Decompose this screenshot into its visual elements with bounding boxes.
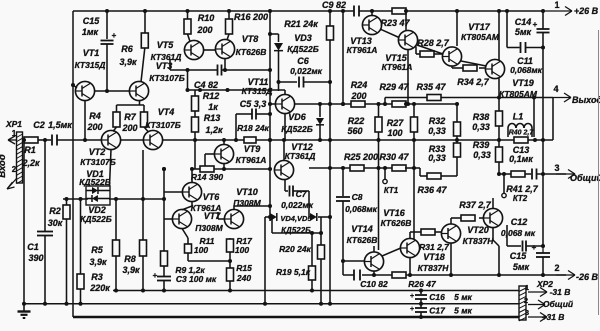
svg-text:220к: 220к bbox=[89, 283, 110, 293]
svg-text:+: + bbox=[410, 293, 414, 300]
svg-text:R24: R24 bbox=[351, 80, 368, 90]
svg-text:3,9к: 3,9к bbox=[89, 257, 107, 267]
svg-text:R41 2,7: R41 2,7 bbox=[506, 184, 539, 194]
svg-text:КТ837Н: КТ837Н bbox=[418, 263, 450, 273]
svg-text:КД522Б: КД522Б bbox=[287, 44, 319, 54]
svg-text:R25 200: R25 200 bbox=[344, 152, 378, 162]
svg-text:R37 2,7: R37 2,7 bbox=[459, 200, 492, 210]
svg-text:-26 В: -26 В bbox=[576, 272, 599, 282]
svg-text:С12: С12 bbox=[511, 217, 528, 227]
svg-text:VD3: VD3 bbox=[294, 33, 312, 43]
svg-text:+: + bbox=[410, 306, 414, 313]
svg-text:VT10: VT10 bbox=[236, 187, 258, 197]
svg-text:390: 390 bbox=[28, 253, 43, 263]
svg-text:R14 390: R14 390 bbox=[191, 172, 223, 182]
svg-text:L1: L1 bbox=[513, 112, 524, 122]
svg-text:0,1мк: 0,1мк bbox=[509, 154, 533, 164]
svg-text:2: 2 bbox=[524, 296, 528, 305]
svg-text:КТ3107Б: КТ3107Б bbox=[80, 157, 115, 167]
svg-text:ХР1: ХР1 bbox=[5, 119, 22, 129]
svg-text:VT16: VT16 bbox=[383, 208, 406, 218]
svg-text:0,33: 0,33 bbox=[473, 150, 491, 160]
svg-text:3,9к: 3,9к bbox=[122, 265, 140, 275]
svg-text:R32: R32 bbox=[429, 116, 446, 126]
svg-text:2: 2 bbox=[554, 263, 559, 273]
svg-text:R29 47: R29 47 bbox=[379, 82, 409, 92]
svg-text:КТ315Д: КТ315Д bbox=[242, 86, 273, 96]
svg-text:КТ626В: КТ626В bbox=[347, 235, 378, 245]
svg-text:R21 24к: R21 24к bbox=[284, 19, 318, 29]
svg-text:R8: R8 bbox=[124, 254, 136, 264]
svg-text:VD6: VD6 bbox=[288, 112, 307, 122]
svg-text:R10: R10 bbox=[198, 13, 215, 23]
svg-text:С6: С6 bbox=[297, 56, 309, 66]
svg-text:С5 3,3: С5 3,3 bbox=[240, 99, 267, 109]
svg-text:С1: С1 bbox=[27, 242, 39, 252]
svg-text:R2: R2 bbox=[49, 206, 61, 216]
svg-text:0,068мк: 0,068мк bbox=[510, 65, 543, 75]
svg-text:0,33: 0,33 bbox=[428, 153, 446, 163]
svg-text:R36 47: R36 47 bbox=[417, 185, 447, 195]
svg-text:КТ961А: КТ961А bbox=[236, 155, 267, 165]
svg-text:КТ805АМ: КТ805АМ bbox=[499, 89, 538, 99]
svg-text:VT20: VT20 bbox=[467, 225, 489, 235]
svg-text:0,068мк: 0,068мк bbox=[345, 204, 378, 214]
svg-text:КТ2: КТ2 bbox=[513, 194, 528, 203]
svg-text:R31 2,7: R31 2,7 bbox=[419, 242, 450, 252]
svg-text:3: 3 bbox=[554, 163, 559, 173]
svg-text:30к: 30к bbox=[48, 218, 63, 228]
svg-text:VT2: VT2 bbox=[89, 147, 106, 157]
svg-text:R40 2,7: R40 2,7 bbox=[509, 130, 535, 137]
svg-text:VD4,VD5: VD4,VD5 bbox=[280, 214, 312, 223]
svg-text:5 мк: 5 мк bbox=[454, 292, 472, 302]
svg-text:КТ626В: КТ626В bbox=[236, 47, 267, 57]
svg-text:П308М: П308М bbox=[195, 223, 223, 233]
svg-text:VT6: VT6 bbox=[203, 192, 221, 202]
svg-text:1: 1 bbox=[525, 283, 529, 292]
svg-text:200: 200 bbox=[86, 122, 102, 132]
svg-text:КТ961А: КТ961А bbox=[382, 62, 413, 72]
svg-text:2,2к: 2,2к bbox=[21, 158, 40, 168]
svg-text:R28 2,7: R28 2,7 bbox=[417, 38, 450, 48]
svg-text:R3: R3 bbox=[91, 272, 103, 282]
svg-text:R5: R5 bbox=[91, 245, 103, 255]
svg-text:КТ3107Б: КТ3107Б bbox=[149, 73, 184, 83]
svg-text:2: 2 bbox=[12, 165, 17, 174]
svg-text:R35 47: R35 47 bbox=[416, 82, 446, 92]
svg-text:С14: С14 bbox=[515, 17, 532, 27]
svg-text:VT19: VT19 bbox=[512, 78, 534, 88]
svg-text:VT7: VT7 bbox=[204, 211, 222, 221]
svg-text:-31 В: -31 В bbox=[550, 287, 571, 297]
svg-text:240: 240 bbox=[236, 273, 251, 283]
svg-text:КД522Б: КД522Б bbox=[80, 214, 112, 224]
svg-text:R7: R7 bbox=[124, 112, 136, 122]
svg-text:0,068 мк: 0,068 мк bbox=[501, 228, 536, 238]
svg-text:R19 5,1к: R19 5,1к bbox=[276, 267, 311, 277]
svg-text:200: 200 bbox=[196, 25, 212, 35]
svg-text:Общий: Общий bbox=[570, 173, 600, 183]
svg-text:КД522Б: КД522Б bbox=[281, 226, 311, 235]
svg-text:0,022мк: 0,022мк bbox=[290, 66, 323, 76]
svg-text:R22: R22 bbox=[348, 116, 365, 126]
svg-text:100: 100 bbox=[194, 245, 208, 255]
svg-text:+: + bbox=[112, 31, 117, 40]
svg-text:С4 82: С4 82 bbox=[194, 80, 218, 90]
svg-text:0,022мк: 0,022мк bbox=[281, 200, 314, 210]
svg-text:VT17: VT17 bbox=[468, 22, 491, 32]
svg-text:R20 24к: R20 24к bbox=[279, 244, 311, 254]
svg-text:1: 1 bbox=[12, 129, 17, 138]
svg-text:С15: С15 bbox=[510, 251, 528, 261]
svg-text:R13: R13 bbox=[204, 113, 221, 123]
svg-text:100: 100 bbox=[235, 245, 249, 255]
svg-text:+: + bbox=[532, 243, 537, 252]
svg-text:С17: С17 bbox=[429, 306, 446, 316]
svg-text:4: 4 bbox=[553, 84, 558, 94]
svg-text:3: 3 bbox=[525, 308, 529, 317]
svg-text:R1: R1 bbox=[24, 145, 36, 155]
svg-text:R27: R27 bbox=[387, 118, 405, 128]
svg-text:1,5мк: 1,5мк bbox=[48, 120, 72, 130]
svg-text:VT18: VT18 bbox=[423, 252, 445, 262]
svg-text:560: 560 bbox=[347, 126, 362, 136]
svg-text:100: 100 bbox=[387, 128, 402, 138]
svg-text:С2: С2 bbox=[33, 120, 45, 130]
svg-text:R15: R15 bbox=[236, 263, 252, 273]
svg-text:R12: R12 bbox=[203, 91, 220, 101]
svg-text:Вход: Вход bbox=[0, 154, 8, 178]
svg-text:С3 100 мк: С3 100 мк bbox=[176, 274, 217, 284]
svg-text:С10 82: С10 82 bbox=[360, 279, 388, 289]
svg-text:Общий: Общий bbox=[543, 299, 574, 309]
svg-text:1мк: 1мк bbox=[82, 27, 99, 37]
svg-text:R16 200: R16 200 bbox=[234, 12, 268, 22]
svg-text:VT8: VT8 bbox=[242, 34, 259, 44]
svg-text:+26 В: +26 В bbox=[574, 6, 599, 16]
svg-text:R23 47: R23 47 bbox=[380, 18, 410, 28]
svg-text:R34 2,7: R34 2,7 bbox=[457, 77, 490, 87]
svg-text:200: 200 bbox=[350, 91, 366, 101]
svg-text:КД522Б: КД522Б bbox=[79, 177, 111, 187]
svg-text:5мк: 5мк bbox=[513, 262, 530, 272]
svg-text:1к: 1к bbox=[208, 102, 218, 112]
svg-text:КТ1: КТ1 bbox=[384, 186, 399, 195]
svg-text:R6: R6 bbox=[121, 44, 133, 54]
svg-text:5мк: 5мк bbox=[515, 27, 532, 37]
svg-text:VT4: VT4 bbox=[158, 107, 175, 117]
svg-text:КТ3107Б: КТ3107Б bbox=[145, 120, 180, 130]
svg-text:+: + bbox=[533, 20, 538, 29]
svg-text:С8: С8 bbox=[352, 192, 363, 202]
svg-text:Выход: Выход bbox=[572, 95, 600, 105]
svg-text:R30 47: R30 47 bbox=[379, 152, 409, 162]
svg-text:С9 82: С9 82 bbox=[322, 0, 346, 10]
svg-text:R39: R39 bbox=[473, 140, 490, 150]
svg-text:R38: R38 bbox=[473, 112, 490, 122]
svg-text:КТ361Д: КТ361Д bbox=[285, 151, 316, 161]
svg-text:КТ626В: КТ626В bbox=[381, 218, 412, 228]
svg-text:0,33: 0,33 bbox=[428, 126, 446, 136]
svg-text:200: 200 bbox=[121, 123, 137, 133]
svg-text:1,2к: 1,2к bbox=[205, 125, 223, 135]
svg-text:3,9к: 3,9к bbox=[119, 57, 137, 67]
svg-text:КТ805АМ: КТ805АМ bbox=[461, 32, 500, 42]
svg-text:R18 24к: R18 24к bbox=[237, 123, 269, 133]
svg-text:+: + bbox=[153, 271, 158, 280]
svg-text:КТ837Н: КТ837Н bbox=[463, 236, 495, 246]
svg-text:КТ961А: КТ961А bbox=[347, 45, 378, 55]
svg-text:0,33: 0,33 bbox=[472, 122, 490, 132]
svg-text:5 мк: 5 мк bbox=[454, 306, 472, 316]
svg-text:VT14: VT14 bbox=[351, 224, 373, 234]
svg-text:КД522Б: КД522Б bbox=[281, 124, 313, 134]
svg-text:VT1: VT1 bbox=[83, 48, 100, 58]
svg-text:VT5: VT5 bbox=[157, 40, 175, 50]
svg-text:КТ315Д: КТ315Д bbox=[75, 60, 106, 70]
svg-text:VT3: VT3 bbox=[156, 61, 173, 71]
svg-text:С15: С15 bbox=[83, 16, 101, 26]
svg-text:R4: R4 bbox=[89, 111, 101, 121]
svg-text:П308М: П308М bbox=[233, 198, 261, 208]
svg-text:С7: С7 bbox=[296, 189, 308, 199]
svg-text:С16: С16 bbox=[429, 292, 445, 302]
svg-text:1: 1 bbox=[554, 0, 559, 10]
svg-text:R26 47: R26 47 bbox=[408, 279, 437, 289]
svg-text:+31 В: +31 В bbox=[542, 312, 565, 322]
svg-text:VT9: VT9 bbox=[244, 144, 261, 154]
